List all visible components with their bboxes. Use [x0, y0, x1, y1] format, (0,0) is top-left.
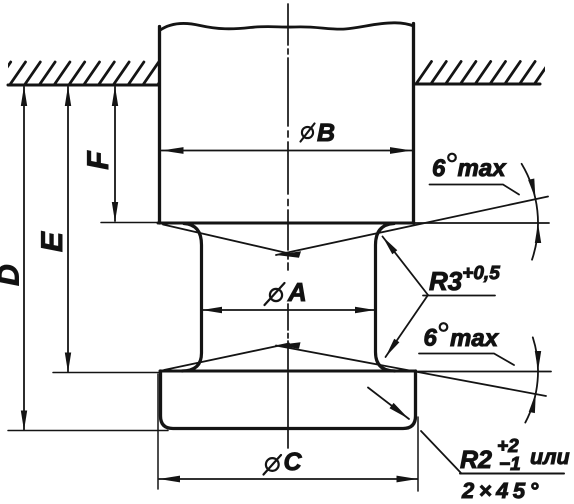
leader underline R2 [460, 473, 564, 475]
svg-text:E: E [36, 231, 69, 252]
arrowhead at bottom cone apex [276, 342, 301, 349]
groove right wall with R3 corners [376, 224, 396, 372]
R3 leader arrow to top corner [383, 237, 429, 296]
arrowhead at top cone apex [276, 251, 301, 258]
R2 leader from text [421, 431, 461, 473]
datum surface line left [8, 84, 158, 87]
angle arc top [522, 164, 538, 260]
dimension line øB [162, 150, 413, 152]
cylinder break line (wavy top) [160, 23, 414, 31]
angle arc bottom [525, 337, 538, 422]
top cone left edge [163, 225, 289, 254]
top shoulder extension right [414, 222, 549, 224]
svg-text:−1: −1 [499, 454, 521, 475]
svg-text:D: D [0, 264, 26, 286]
label øC [264, 455, 282, 475]
svg-text:R2: R2 [460, 446, 492, 474]
groove left wall with R3 corners [182, 224, 202, 372]
leader underline R3 [423, 295, 495, 297]
svg-text:R3+0,5: R3+0,5 [429, 263, 500, 296]
top shoulder line [158, 222, 414, 225]
hatching right [416, 62, 550, 85]
R3 leader arrow to bottom corner [386, 295, 429, 357]
datum surface line right [414, 83, 540, 86]
svg-text:max: max [458, 155, 508, 182]
svg-text:A: A [287, 277, 307, 307]
cylinder right edge [412, 24, 415, 224]
svg-text:2×45°: 2×45° [461, 478, 543, 503]
leader underline 6°max top [430, 185, 520, 195]
bottom shoulder extension left [53, 372, 160, 374]
label øB [301, 124, 315, 142]
top shoulder extension left [101, 222, 158, 224]
flange outline with R2 corners [161, 371, 416, 429]
øC extension line left [157, 374, 159, 489]
svg-text:6: 6 [424, 325, 438, 352]
dimension E line [67, 87, 69, 372]
svg-text:max: max [450, 325, 500, 352]
leader underline 6°max bottom [419, 354, 514, 366]
svg-text:F: F [82, 151, 115, 170]
bottom shoulder extension right [415, 371, 551, 373]
svg-text:6: 6 [432, 155, 446, 182]
top cone right edge extended (leader of top 6°max) [276, 197, 548, 256]
dimension D line [23, 87, 25, 430]
øC extension line right [417, 417, 419, 491]
center line [287, 4, 289, 45]
svg-text:C: C [284, 448, 303, 476]
dimension line øC [159, 478, 418, 480]
bottom cone left edge [164, 344, 289, 371]
label øA [265, 283, 285, 305]
flange bottom extension left [8, 430, 168, 432]
svg-text:B: B [317, 119, 335, 147]
dimension F line [114, 87, 116, 221]
R2 leader arrow into corner [368, 388, 409, 420]
bottom cone right edge extended (leader of bottom 6°max) [276, 346, 546, 397]
cylinder left edge [158, 27, 161, 224]
bottom shoulder line [160, 370, 415, 373]
hatching left [0, 62, 174, 85]
svg-text:или: или [530, 445, 570, 469]
dimension line øA [202, 309, 375, 311]
